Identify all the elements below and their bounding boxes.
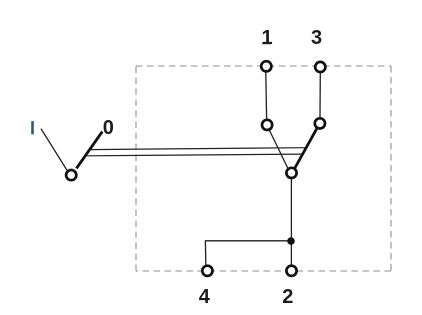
wire inner contact 3 to common pole (closed contact, thick) bbox=[295, 129, 317, 169]
mechanical coupling line lower bbox=[87, 154, 301, 156]
svg-text:2: 2 bbox=[282, 286, 293, 308]
switch body dashed outline left edge bbox=[135, 66, 137, 271]
label I (blue bar) bbox=[31, 121, 34, 134]
terminal 3 circle bbox=[315, 62, 325, 72]
lever position 0 line (thick) bbox=[76, 132, 102, 169]
lever position I line (thin) bbox=[41, 129, 67, 171]
svg-text:3: 3 bbox=[311, 27, 322, 49]
svg-text:4: 4 bbox=[199, 286, 211, 308]
inner contact circle under terminal 3 bbox=[315, 118, 325, 128]
common pole circle bbox=[286, 168, 296, 178]
lever pivot circle bbox=[66, 170, 76, 180]
mechanical coupling line upper bbox=[91, 148, 306, 150]
switch body dashed outline right edge bbox=[390, 66, 392, 271]
wire terminal1 to inner contact 1 bbox=[265, 72, 268, 118]
terminal 2 circle bbox=[286, 266, 296, 276]
wire common pole down to junction bbox=[290, 179, 292, 265]
terminal 1 circle bbox=[261, 61, 271, 71]
inner contact circle under terminal 1 bbox=[262, 120, 272, 130]
switch body dashed outline bottom edge bbox=[136, 270, 391, 272]
wire down to terminal 4 (vertical) bbox=[204, 240, 206, 264]
switch body dashed outline top edge bbox=[136, 65, 391, 67]
wire inner contact 1 to common pole (open contact) bbox=[270, 131, 288, 169]
wire junction to terminal 4 (horizontal) bbox=[205, 240, 291, 242]
wire terminal3 to inner contact 3 bbox=[319, 73, 321, 117]
junction dot bbox=[287, 237, 295, 245]
svg-text:1: 1 bbox=[261, 27, 272, 49]
svg-text:0: 0 bbox=[103, 117, 114, 139]
terminal 4 circle bbox=[202, 266, 212, 276]
